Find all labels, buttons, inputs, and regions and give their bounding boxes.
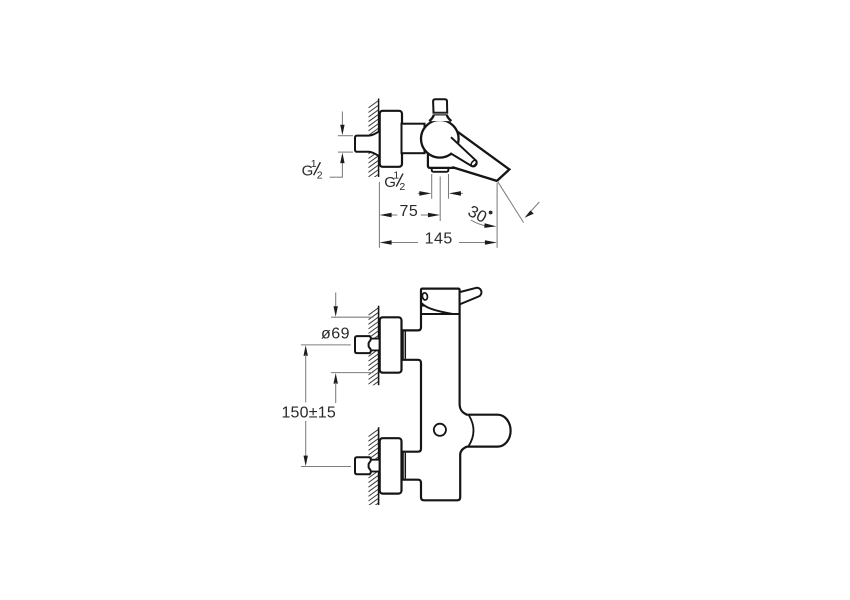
knob joint band xyxy=(434,113,448,115)
outlet ext lines xyxy=(431,174,433,199)
escutcheon wall plate (top view) xyxy=(380,111,402,167)
spout root arc xyxy=(469,415,474,446)
150 dim line xyxy=(304,345,308,356)
handle lever (top view) xyxy=(450,137,476,166)
cap bottom line xyxy=(421,313,460,315)
30 deg arc arrow xyxy=(471,220,488,226)
handle lever (front view) xyxy=(460,288,482,305)
wall line (top view) xyxy=(378,99,380,178)
upper escutcheon xyxy=(380,317,402,372)
valve body lower block xyxy=(428,150,455,168)
spout (top view) xyxy=(449,126,509,181)
lower escutcheon xyxy=(380,438,402,493)
150 ext bottom xyxy=(301,466,351,468)
outlet dim arrows xyxy=(418,192,422,194)
dia69 ext top xyxy=(331,316,373,318)
svg-text:145: 145 xyxy=(425,230,453,247)
cap swoosh xyxy=(422,303,452,314)
wall hatch (top view) xyxy=(368,101,378,191)
boss seam upper xyxy=(404,331,406,358)
G1/2 left dim ext lines xyxy=(338,135,353,137)
svg-text:1: 1 xyxy=(311,158,317,170)
upper union nut xyxy=(355,336,371,353)
G1/2 left dim arrows xyxy=(341,112,343,127)
body outline (front view) xyxy=(403,289,511,501)
wall line upper xyxy=(378,306,380,386)
svg-text:2: 2 xyxy=(399,181,405,193)
G1/2 left leader xyxy=(330,176,343,178)
svg-text:150±15: 150±15 xyxy=(281,404,335,421)
body screw circle xyxy=(434,424,446,436)
diverter knob flare xyxy=(429,115,451,121)
wall hatch upper (front view) xyxy=(368,308,378,398)
lower union neck xyxy=(370,461,380,471)
wall hatch lower (front view) xyxy=(368,429,378,519)
aerator / shower outlet xyxy=(432,167,449,172)
lower union nut xyxy=(355,457,371,474)
wall supply pipe G1/2 (behind wall) xyxy=(355,131,379,156)
svg-text:2: 2 xyxy=(317,169,323,181)
boss seam lower xyxy=(404,453,406,479)
30 deg leader arrow xyxy=(529,202,539,213)
75 dim xyxy=(378,182,380,248)
cartridge circle xyxy=(421,120,459,158)
svg-text:1: 1 xyxy=(393,170,399,182)
30 deg reference diagonal xyxy=(497,181,523,222)
connector cylinder xyxy=(402,124,425,154)
dia69 upper arrow xyxy=(335,293,337,309)
wall line lower xyxy=(378,427,380,505)
diverter knob xyxy=(433,99,447,113)
dia69 ext bottom xyxy=(331,372,373,374)
145 dim xyxy=(496,183,498,248)
upper union neck xyxy=(370,339,380,349)
svg-text:ø69: ø69 xyxy=(321,325,350,342)
dia69 lower arrow xyxy=(334,373,338,384)
150 ext top xyxy=(301,344,351,346)
cap screw ellipse xyxy=(422,292,428,300)
svg-text:75: 75 xyxy=(400,203,419,220)
